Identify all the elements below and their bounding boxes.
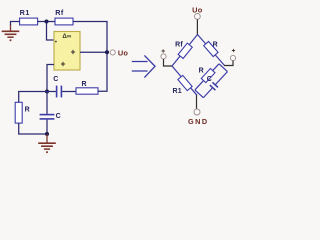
implication arrow — [132, 61, 148, 63]
resistor R (series) — [76, 88, 98, 94]
wire noninverting input to node P — [47, 65, 54, 92]
output junction — [105, 50, 109, 54]
wire node P to left leg — [19, 92, 47, 103]
wire bridge arm top-left — [172, 35, 198, 67]
wire parallel loop (bridge lower-right) — [219, 64, 227, 72]
resistor Rf — [55, 18, 73, 25]
svg-text:Δ∞: Δ∞ — [62, 33, 71, 40]
wire ground to R1 — [11, 22, 20, 26]
wire right terminal to bridge — [224, 61, 233, 66]
wire loop upper branch — [195, 64, 219, 90]
svg-text:Rf: Rf — [55, 8, 64, 17]
wire bridge bottom to GND terminal — [196, 95, 198, 109]
svg-text:R1: R1 — [20, 8, 30, 17]
wire node P down to capacitor — [46, 92, 48, 114]
wire left leg to bottom node — [19, 123, 47, 134]
svg-text:C: C — [53, 76, 58, 83]
resistor Rf (bridge upper-left) — [178, 43, 192, 58]
resistor R1 — [20, 18, 38, 25]
capacitor C (series) — [56, 86, 58, 98]
node A junction — [45, 20, 49, 24]
ground (top left) — [2, 30, 20, 32]
wire op-amp output — [80, 51, 107, 53]
svg-text:R: R — [213, 42, 218, 49]
wire Rf to output rail — [73, 22, 107, 53]
svg-text:Rf: Rf — [175, 41, 183, 48]
wire bridge arm top-right — [198, 35, 225, 66]
svg-text:R: R — [81, 81, 86, 88]
terminal GND — [194, 109, 200, 115]
terminal right (bridge) — [230, 55, 235, 60]
terminal Uo (bridge) — [195, 14, 201, 20]
svg-text:R1: R1 — [173, 88, 182, 95]
svg-text:R: R — [25, 106, 30, 113]
svg-text:GND: GND — [188, 117, 209, 126]
terminal Uo (left circuit) — [110, 50, 115, 55]
capacitor C (parallel) — [40, 114, 55, 116]
op-amp U1 — [54, 32, 80, 71]
svg-text:Uo: Uo — [118, 48, 129, 57]
node P junction — [45, 90, 49, 94]
capacitor C (bridge loop) — [212, 82, 218, 87]
ground (bottom) — [46, 134, 48, 143]
svg-text:R: R — [199, 68, 204, 75]
wire capacitor to bottom node — [46, 120, 48, 134]
wire node A to inverting input — [47, 22, 55, 41]
resistor R (parallel, left leg) — [15, 102, 22, 123]
bottom node junction — [45, 132, 49, 136]
wire left terminal to bridge — [164, 59, 173, 66]
resistor R (bridge loop) — [201, 69, 215, 83]
wire resistor to output rail — [98, 53, 107, 91]
svg-text:Uo: Uo — [192, 5, 203, 14]
resistor R (bridge upper-right) — [204, 41, 218, 56]
wire bridge arm bottom-left — [172, 66, 197, 95]
wire capacitor to resistor — [62, 91, 76, 93]
wire loop lower branch — [215, 72, 227, 85]
terminal left (bridge) — [161, 54, 166, 59]
svg-text:C: C — [207, 76, 212, 83]
wire R1 to node A — [38, 21, 55, 23]
wire node P to capacitor — [47, 91, 56, 93]
svg-text:C: C — [56, 113, 61, 120]
wire Uo terminal to bridge top — [196, 19, 198, 34]
resistor R1 (bridge lower-left) — [178, 75, 192, 90]
